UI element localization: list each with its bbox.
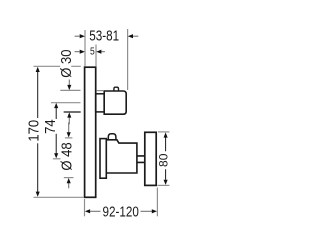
svg-text:53-81: 53-81 — [89, 27, 119, 44]
svg-text:170: 170 — [26, 120, 42, 142]
svg-text:92-120: 92-120 — [103, 203, 139, 220]
svg-text:Ø 48: Ø 48 — [59, 142, 75, 171]
svg-text:74: 74 — [42, 119, 58, 134]
svg-text:Ø 30: Ø 30 — [59, 49, 75, 78]
svg-text:80: 80 — [156, 153, 170, 167]
svg-text:5: 5 — [90, 46, 95, 57]
